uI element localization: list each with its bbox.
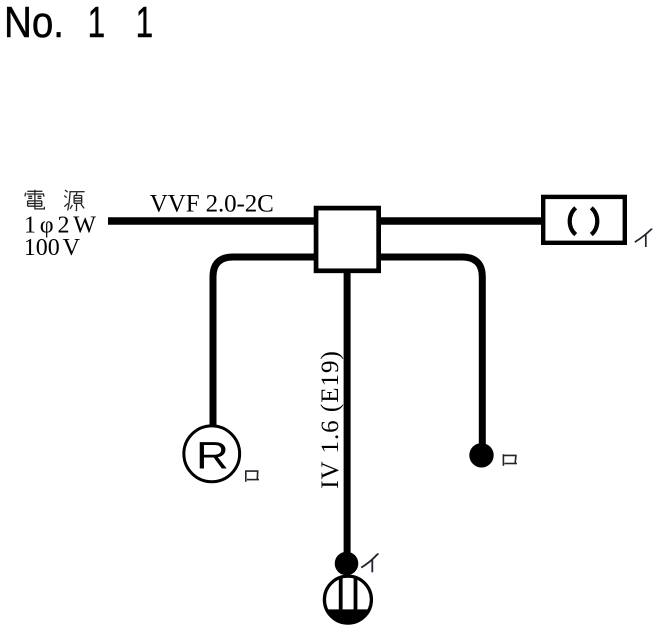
label ロ (right of receptacle R) xyxy=(246,470,259,481)
svg-text:VVF 2.0-2C: VVF 2.0-2C xyxy=(150,190,274,217)
switch ロ (filled dot, right branch) xyxy=(469,443,493,467)
ceiling fixture: left bar xyxy=(339,577,343,612)
svg-text:V: V xyxy=(63,235,81,261)
label イ (right of lamp fixture) xyxy=(635,229,653,247)
ceiling fixture: circle xyxy=(324,576,371,623)
power source kanji 源 xyxy=(64,190,84,211)
svg-text:1: 1 xyxy=(88,0,106,47)
title "No. 11" xyxy=(4,0,153,47)
label ロ (right of switch ロ) xyxy=(503,454,517,466)
svg-text:100: 100 xyxy=(24,235,60,261)
power source kanji 電 xyxy=(25,190,45,209)
wire: power feed from source to junction box xyxy=(108,217,316,225)
switch イ (filled dot above ceiling fixture) xyxy=(335,552,359,576)
lamp fixture イ: right paren xyxy=(591,208,597,235)
ceiling fixture: right bar xyxy=(354,577,358,612)
svg-text:IV 1.6 (E19): IV 1.6 (E19) xyxy=(317,351,344,489)
ceiling fixture: filled bottom segment xyxy=(327,609,370,623)
svg-text:1: 1 xyxy=(136,0,154,47)
wire: junction box down-left to receptacle R xyxy=(213,257,316,426)
svg-text:R: R xyxy=(196,434,229,477)
lamp fixture イ: left paren xyxy=(570,208,576,235)
wire: junction box to lamp fixture イ (right) xyxy=(378,217,543,225)
label イ (right of switch イ) xyxy=(361,554,378,572)
wire: junction box down to switch イ (center, in conduit) xyxy=(344,271,351,553)
lamp fixture イ: rectangle xyxy=(543,197,625,243)
wire: junction box down-right to switch ロ xyxy=(378,257,482,444)
receptacle R: circle xyxy=(184,426,240,482)
junction box B1 xyxy=(316,208,379,271)
svg-text:No.: No. xyxy=(4,0,64,47)
